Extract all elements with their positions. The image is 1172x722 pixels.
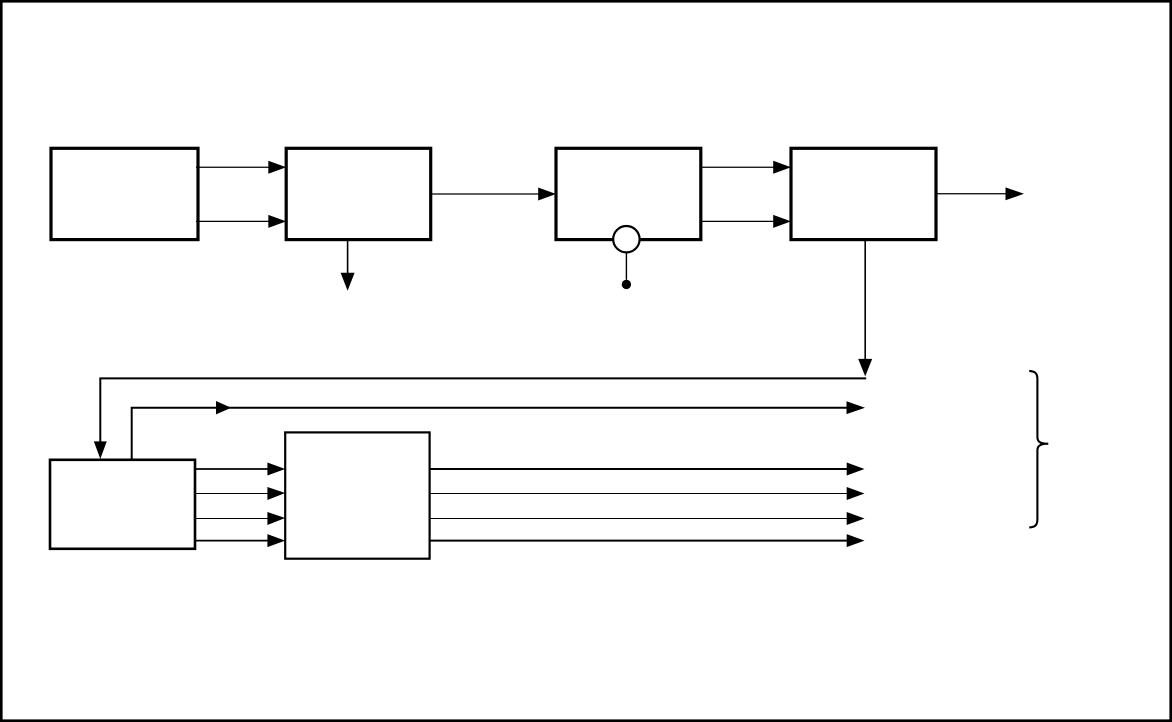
block 5 (lower-left) [50,460,195,549]
wire block3 to block4 upper [701,166,779,168]
curly brace (right) [1029,371,1048,528]
output bus row2 from block6 [430,493,852,495]
wire block5 to block6 row1 [195,468,274,470]
wire block1 to block2 upper [196,166,274,168]
mid arrowhead on second bus line [216,401,231,414]
feedback wire horizontal and down into block5 [100,378,866,446]
block 3 [556,148,701,239]
feedback wire down from block4 [864,240,866,362]
wire block5 to block6 row3 [195,518,274,520]
output bus row1 from block6 [430,468,852,470]
stem wire below circle [625,253,627,280]
block 2 [286,148,431,239]
down arrow from block 2 [347,240,349,276]
wire block2 to block3 [431,193,544,195]
output bus row3 from block6 [430,518,852,520]
wire block5 to block6 row2 [195,493,274,495]
output bus row4 from block6 [430,540,852,542]
node dot [622,280,631,289]
block 4 [791,148,936,239]
wire block5 to block6 row4 [195,540,274,542]
output arrow from block4 right [936,193,1012,195]
circle terminal on block3 bottom [613,226,639,252]
wire block1 to block2 lower [196,220,274,222]
wire from block5 up and right (second bus line) [132,408,852,460]
wire block3 to block4 lower [701,220,779,222]
end arrowhead of second bus line [847,401,866,414]
block 6 (lower-middle) [285,432,429,558]
block 1 (top-left) [51,148,198,239]
